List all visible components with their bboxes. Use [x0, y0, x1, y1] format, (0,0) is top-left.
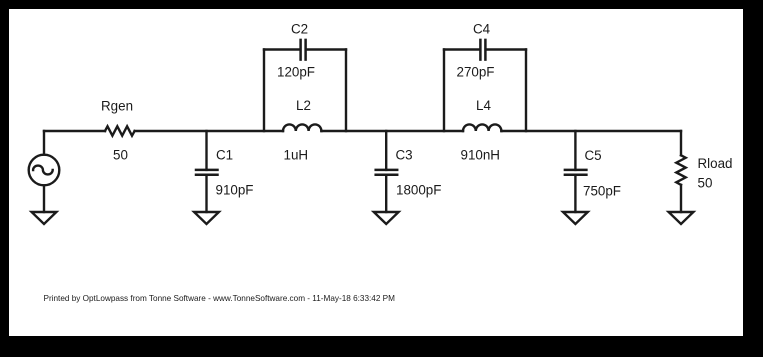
svg-text:910pF: 910pF [216, 182, 254, 197]
wire Rload top [680, 131, 682, 155]
svg-text:C4: C4 [473, 22, 491, 37]
svg-text:L4: L4 [476, 98, 491, 113]
svg-text:1uH: 1uH [284, 147, 309, 162]
wire C2 branch right vertical [345, 50, 347, 132]
ground (C3) [374, 212, 399, 224]
wire main segment D [501, 130, 681, 132]
wire main segment C [321, 130, 463, 132]
ground (Rload) [669, 212, 694, 224]
wire C2 branch top right [306, 48, 346, 50]
svg-text:C1: C1 [216, 147, 233, 162]
wire C4 branch right vertical [525, 50, 527, 132]
svg-text:270pF: 270pF [457, 64, 495, 79]
wire main segment A [44, 130, 105, 132]
inductor L4 [463, 124, 501, 131]
svg-text:L2: L2 [296, 98, 311, 113]
wire C4 branch top right [486, 48, 526, 50]
capacitor C2 [301, 40, 306, 60]
wire C3 upper [385, 131, 387, 170]
capacitor C3 [376, 170, 398, 175]
wire C1 lower [205, 175, 207, 212]
svg-text:910nH: 910nH [461, 147, 500, 162]
ground (C5) [563, 212, 588, 224]
svg-text:1800pF: 1800pF [396, 182, 441, 197]
wire main segment B [135, 130, 283, 132]
wire C5 upper [574, 131, 576, 170]
svg-text:Printed by OptLowpass from Ton: Printed by OptLowpass from Tonne Softwar… [44, 294, 396, 303]
wire C4 branch left vertical [443, 50, 445, 132]
svg-text:Rgen: Rgen [101, 98, 133, 113]
svg-text:C2: C2 [291, 22, 308, 37]
wire C2 branch left vertical [263, 50, 265, 132]
wire source top [43, 131, 45, 155]
resistor Rgen [105, 126, 135, 135]
capacitor C5 [565, 170, 587, 175]
resistor Rload [676, 155, 685, 185]
capacitor C1 [196, 170, 218, 175]
ground (C1) [194, 212, 219, 224]
AC source V1 [29, 155, 60, 186]
wire C4 branch top left [444, 48, 480, 50]
wire C2 branch top left [264, 48, 300, 50]
inductor L2 [283, 124, 321, 131]
svg-text:C3: C3 [396, 147, 413, 162]
svg-text:C5: C5 [585, 148, 602, 163]
capacitor C4 [480, 40, 485, 60]
svg-text:Rload: Rload [698, 156, 733, 171]
ground (source) [32, 212, 57, 224]
svg-text:120pF: 120pF [277, 64, 315, 79]
svg-text:50: 50 [698, 175, 713, 190]
svg-text:750pF: 750pF [583, 183, 621, 198]
wire Rload bottom [680, 185, 682, 212]
wire C3 lower [385, 175, 387, 212]
wire source bottom [43, 185, 45, 212]
wire C1 upper [205, 131, 207, 170]
wire C5 lower [574, 175, 576, 212]
svg-text:50: 50 [113, 147, 128, 162]
